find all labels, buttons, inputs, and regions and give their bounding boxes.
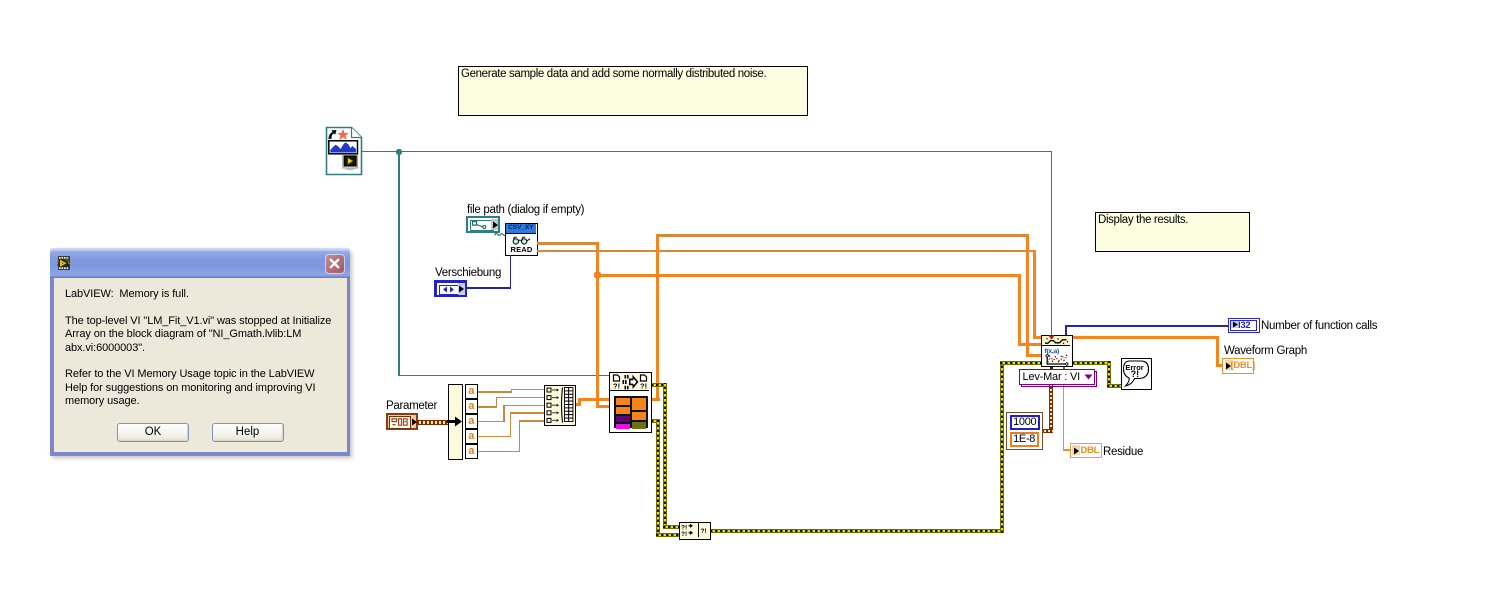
node teal junction [396,149,402,155]
wire orange vertical x1034 [1033,250,1036,339]
wire: squiggle path wire [493,231,508,239]
wire orange horizontal y274 [597,274,1021,277]
wire orange vertical x597 upper [596,242,599,275]
ring constant: Lev-Mar : VI [1021,371,1097,387]
subVI: LM fit (f(x,a)) [1041,335,1073,368]
wire orange into LM input3 [1026,354,1043,357]
wire orange vertical x597 lower [596,275,599,408]
wire blue Verschiebung [466,287,511,289]
VI reference constant (graph VI document icon) [325,126,363,176]
stub red LM to residue [1063,366,1065,369]
wire orange residue thin [1063,384,1065,450]
node orange junction [594,272,601,279]
wire orange into model icon input2 [596,405,612,408]
dialog close button [325,254,345,274]
arrow black into unbundle [447,414,463,429]
wire cluster dotted from Parameter [417,420,451,425]
stub brown LM to ring [1050,366,1053,369]
svg-text:?!: ?! [700,528,706,535]
wire orange vertical x1019 [1018,274,1021,347]
wire orange vertical x657 up [656,234,659,401]
wire orange waveform graph output [1072,336,1219,339]
dialog title bar [50,248,350,278]
wire teal main horizontal [361,151,1052,153]
wire orange horizontal y234 [656,234,1029,237]
svg-text:?!: ?! [1130,369,1139,379]
wire orange READ out1 horizontal [537,242,598,245]
wire error: LM to error dialog [1072,361,1111,365]
svg-text:?!: ?! [640,381,647,390]
wire blue I32 [1065,326,1067,336]
label: Waveform Graph [1224,345,1307,357]
wire orange vertical x1027 [1026,234,1029,357]
comment: display the results [1095,212,1250,252]
build array node [544,385,576,426]
wire orange model icon output stub [651,398,660,401]
wire error: merge output loop [710,529,1004,533]
label: Number of function calls [1261,320,1377,332]
unbundle node element cells [465,384,479,460]
label: Verschiebung [435,267,501,279]
wire orange build-array output jog [576,403,581,406]
cluster constant 1000 / 1E-8 [1006,412,1043,450]
wire teal lower horizontal to model VI [398,375,610,377]
wire orange into LM input2 [1018,343,1043,346]
dialog message text [65,288,349,409]
merge errors node [679,522,711,540]
dialog LabVIEW icon [57,256,71,270]
subVI: simple error handler (Error ?!) [1121,358,1153,390]
dialog: LabVIEW memory full (XP style) [50,248,350,456]
label: file path (dialog if empty) [467,204,584,216]
wire orange into LM input1 [1033,336,1044,339]
wire orange READ out2 horizontal [537,250,1036,253]
svg-text:?!: ?! [613,381,620,390]
label: Residue [1103,446,1143,458]
indicator: I32 Number of function calls [1228,318,1260,333]
indicator: [DBL] waveform graph [1222,358,1254,374]
wire error: model icon top out [651,383,667,387]
button OK [117,423,189,442]
subVI: model data file VI (colored tiles) [609,372,652,433]
wires thin orange unbundle to build array [477,391,512,393]
red terminal arrow on LM VI [1048,335,1055,340]
svg-text:?!: ?! [681,531,687,537]
indicator: DBL Residue [1070,443,1102,459]
wire dotted cluster ring to constant [1049,384,1053,433]
wire teal vertical to LM VI [1051,151,1053,336]
label: Parameter [386,400,437,412]
dialog body [54,278,347,453]
wire teal vertical branch [398,151,400,375]
wire error: model icon bottom out [651,419,660,423]
comment: generate sample data [458,66,808,116]
unbundle node left column [448,384,463,460]
control: Parameter cluster [386,413,418,430]
button Help [212,423,284,442]
subVI: CSV_XY READ [505,223,538,256]
control: Verschiebung numeric [434,280,467,297]
control: file path [466,216,500,233]
